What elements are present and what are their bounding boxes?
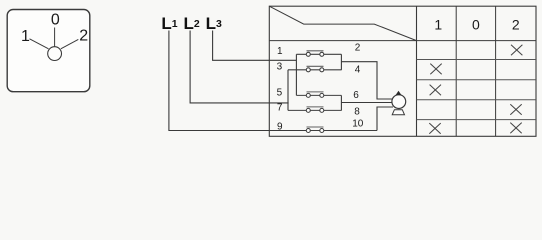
knob pointer to 0 bbox=[54, 28, 56, 47]
wire L2 to tie node 3-7 bbox=[190, 31, 289, 103]
svg-text:2: 2 bbox=[355, 43, 361, 54]
table row line r3 bbox=[417, 99, 537, 101]
table row line r4 bbox=[417, 119, 537, 121]
svg-text:2: 2 bbox=[512, 16, 520, 32]
svg-text:4: 4 bbox=[355, 65, 361, 76]
table row line r1 bbox=[417, 59, 537, 61]
svg-text:1: 1 bbox=[21, 28, 30, 45]
contact pair 9-10 bbox=[306, 127, 377, 133]
tie wire terminals 3-7 bbox=[287, 70, 289, 111]
svg-text:7: 7 bbox=[277, 102, 283, 113]
switch knob bbox=[48, 47, 62, 61]
svg-text:0: 0 bbox=[472, 16, 480, 32]
svg-text:L1: L1 bbox=[161, 14, 177, 33]
svg-text:9: 9 bbox=[277, 122, 283, 133]
cam band divider line bbox=[269, 40, 536, 42]
bridge wire terminals 2-4 bbox=[340, 54, 342, 70]
svg-text:2: 2 bbox=[79, 28, 88, 45]
knob pointer to 2 bbox=[61, 39, 79, 48]
svg-text:L2: L2 bbox=[184, 14, 200, 33]
X mark row4 pos2 bbox=[510, 104, 521, 115]
X mark row5 pos2 bbox=[510, 123, 521, 134]
svg-text:1: 1 bbox=[277, 46, 283, 57]
knob pointer to 1 bbox=[30, 39, 49, 49]
svg-text:6: 6 bbox=[353, 90, 359, 101]
cam profile curve bbox=[269, 6, 416, 40]
table column line a bbox=[455, 6, 457, 136]
bridge wire terminals 6-8 bbox=[340, 95, 342, 110]
svg-text:8: 8 bbox=[354, 107, 360, 118]
output wire 2-4 to motor bbox=[341, 62, 392, 99]
X mark row2 pos1 bbox=[430, 64, 441, 75]
svg-text:L3: L3 bbox=[206, 14, 222, 33]
contact pair 7-8 bbox=[288, 107, 342, 113]
tie wire terminals 1-5 bbox=[295, 54, 297, 95]
svg-text:1: 1 bbox=[434, 16, 442, 32]
enclosure outer frame bbox=[269, 6, 536, 136]
contact pair 5-6 bbox=[296, 92, 341, 98]
wire L1 to contact 9 bbox=[169, 31, 306, 131]
svg-text:0: 0 bbox=[51, 12, 60, 29]
contact pair 3-4 bbox=[288, 66, 342, 72]
table row line r2 bbox=[417, 79, 537, 81]
table column line b bbox=[495, 6, 497, 136]
X mark row1 pos2 bbox=[511, 45, 522, 56]
motor M1 bbox=[392, 91, 406, 115]
block-table divider bbox=[416, 6, 418, 136]
output wire 6-8 to motor bbox=[341, 102, 392, 104]
switch front panel S1 bbox=[7, 10, 90, 92]
X mark row5 pos1 bbox=[429, 123, 440, 134]
svg-text:10: 10 bbox=[352, 119, 364, 130]
wire L3 to tie node 1-5 bbox=[213, 31, 297, 61]
X mark row3 pos1 bbox=[430, 85, 441, 96]
svg-text:5: 5 bbox=[277, 87, 283, 98]
svg-text:3: 3 bbox=[277, 62, 283, 73]
wire contact 10 to motor base bbox=[377, 107, 393, 131]
contact pair 1-2 bbox=[296, 51, 341, 57]
